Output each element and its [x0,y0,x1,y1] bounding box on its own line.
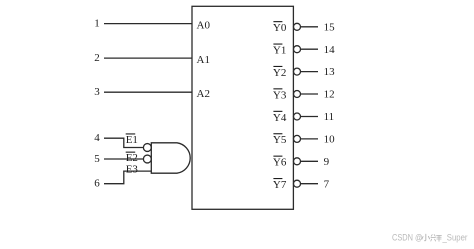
svg-text:10: 10 [324,134,336,146]
overbar of Y0 [273,21,282,22]
wire pin 5 to E2 bubble [104,158,143,160]
output bubble Y7 [294,180,301,187]
svg-text:5: 5 [94,153,100,165]
inverter bubble on E2 input [143,155,151,163]
svg-text:6: 6 [94,178,100,190]
svg-text:A1: A1 [197,54,210,66]
inverter bubble on E1 input [143,144,151,152]
output bubble Y6 [294,158,301,165]
svg-text:11: 11 [324,111,335,123]
svg-text:E1: E1 [126,134,138,146]
output bubble Y3 [294,91,301,98]
wire Y0 to pin 15 [301,26,318,28]
output bubble Y4 [294,113,301,120]
overbar of Y1 [273,44,282,45]
watermark glyph xiao [422,234,430,241]
overbar of Y6 [273,156,282,157]
svg-text:2: 2 [94,52,100,64]
overbar of Y7 [273,178,282,179]
overbar of Y5 [273,133,282,134]
overbar of E2 [126,152,136,153]
svg-text:15: 15 [324,21,336,33]
wire pin 3 to A2 [104,91,192,93]
watermark glyph hui [431,235,442,242]
svg-text:4: 4 [94,132,100,144]
IC body U1 (3-to-8 decoder) [192,6,293,209]
svg-text:Y7: Y7 [273,179,287,191]
svg-text:Y1: Y1 [273,45,286,57]
wire Y5 to pin 10 [301,138,318,140]
wire Y4 to pin 11 [301,116,318,118]
svg-text:Y2: Y2 [273,67,286,79]
output bubble Y1 [294,46,301,53]
overbar of E1 [126,133,136,134]
wire pin 6 to E3 gate input [104,171,151,184]
output bubble Y0 [294,23,301,30]
wire Y6 to pin 9 [301,160,318,162]
svg-text:3: 3 [94,86,100,98]
output bubble Y2 [294,68,301,75]
svg-text:E2: E2 [126,152,138,164]
overbar of Y3 [273,88,282,89]
wire Y7 to pin 7 [301,183,318,185]
wire pin 1 to A0 [104,23,192,25]
svg-text:CSDN @: CSDN @ [392,233,423,243]
svg-text:14: 14 [324,44,336,56]
output bubble Y5 [294,135,301,142]
wire pin 4 to E1 bubble [104,138,143,147]
svg-text:7: 7 [324,178,330,190]
svg-text:Y0: Y0 [273,22,287,34]
overbar of Y2 [273,66,282,67]
wire Y3 to pin 12 [301,93,318,95]
svg-text:Y6: Y6 [273,157,287,169]
svg-text:A2: A2 [197,88,210,100]
wire Y1 to pin 14 [301,48,318,50]
svg-text:A0: A0 [197,20,211,32]
svg-text:Y4: Y4 [273,112,287,124]
svg-text:13: 13 [324,66,336,78]
svg-text:E3: E3 [126,163,139,175]
overbar of Y4 [273,111,282,112]
AND gate G1 (enable gate) [151,143,190,173]
wire Y2 to pin 13 [301,71,318,73]
svg-text:9: 9 [324,156,330,168]
svg-text:12: 12 [324,89,335,101]
svg-text:Y3: Y3 [273,89,287,101]
svg-text:_Super: _Super [442,233,468,243]
svg-text:Y5: Y5 [273,134,287,146]
svg-text:1: 1 [94,18,100,30]
wire pin 2 to A1 [104,57,192,59]
